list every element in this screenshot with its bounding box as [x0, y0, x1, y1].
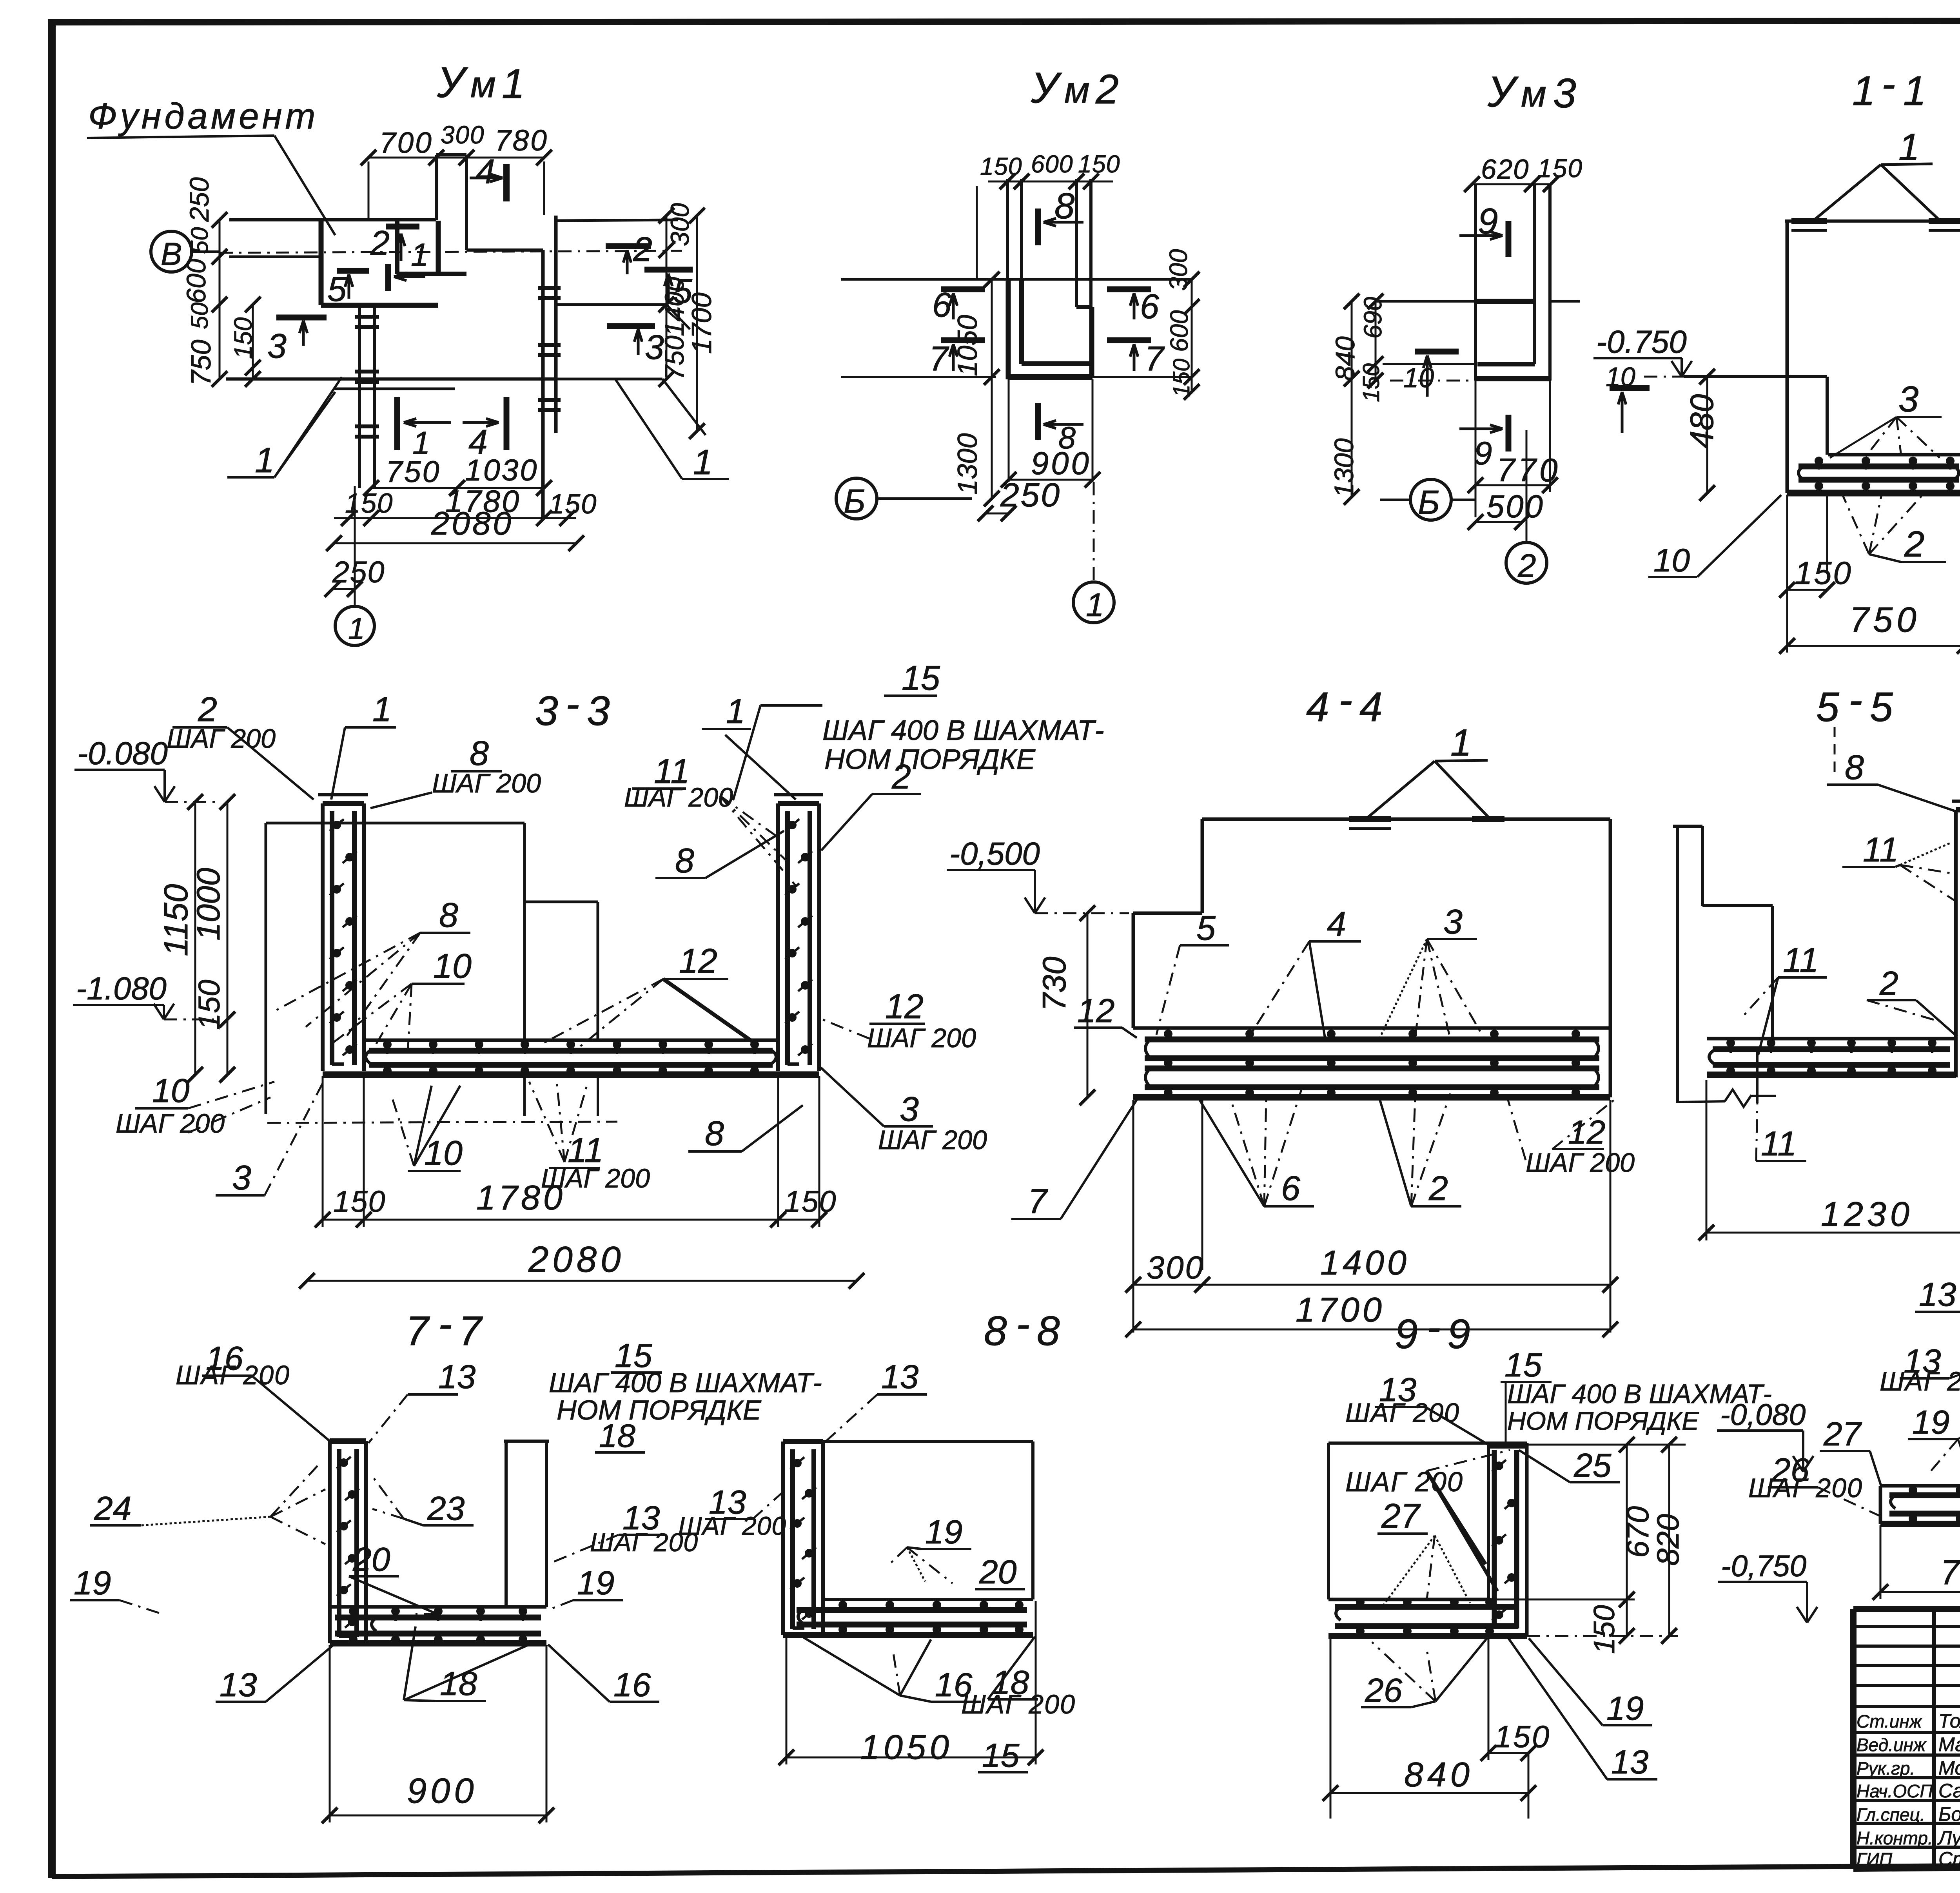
plan Um1 east extension lines [556, 220, 706, 435]
plan Um2 title [1031, 64, 1119, 112]
svg-text:ШАГ 200: ШАГ 200 [1748, 1473, 1863, 1503]
section marks 6 7 right Um2 [1107, 287, 1165, 378]
svg-text:7: 7 [1145, 339, 1165, 378]
label 8 center [274, 896, 470, 1039]
plan Um1 title [437, 58, 525, 107]
svg-text:1: 1 [502, 61, 525, 107]
section 8-8 inner outline [823, 1442, 1033, 1599]
svg-text:19: 19 [74, 1564, 111, 1602]
svg-text:ШАГ 200: ШАГ 200 [432, 769, 541, 798]
svg-text:ШАГ 400 В ШАХМАТ-: ШАГ 400 В ШАХМАТ- [549, 1367, 822, 1398]
svg-text:250: 250 [185, 177, 214, 222]
dimension 150 1780 150 [334, 484, 597, 526]
level mark -0.750 9-9 [1718, 1549, 1817, 1623]
svg-text:8: 8 [675, 841, 694, 880]
svg-text:2: 2 [1095, 66, 1119, 112]
label 12 shag 200 far right [821, 987, 976, 1053]
label 2 top right corner [821, 757, 921, 850]
svg-text:27: 27 [1381, 1496, 1421, 1535]
svg-text:3: 3 [587, 688, 610, 734]
section marks 9 Um3 [1459, 201, 1508, 471]
svg-text:670: 670 [1620, 1506, 1655, 1558]
plan Um3 band lines [1376, 301, 1580, 381]
svg-text:ШАГ 200: ШАГ 200 [1345, 1398, 1460, 1428]
svg-text:26: 26 [1365, 1672, 1403, 1709]
label 2 bottom 4-4 [1380, 1093, 1461, 1208]
svg-text:8: 8 [705, 1114, 724, 1153]
dimensions left side Um1 [181, 177, 261, 387]
label 13 shag 200 left 8-8 [678, 1483, 786, 1540]
label 8 bottom right [688, 1105, 803, 1153]
label 20 8-8 [975, 1553, 1025, 1591]
leader 1 top triangle [1814, 125, 1940, 220]
svg-text:1050: 1050 [952, 315, 983, 376]
svg-text:9: 9 [1447, 1311, 1470, 1357]
svg-text:2: 2 [1428, 1169, 1448, 1208]
svg-text:11: 11 [1761, 1124, 1797, 1163]
svg-text:13: 13 [220, 1666, 257, 1704]
svg-text:1700: 1700 [1296, 1290, 1385, 1329]
label 19 right 7-7 [548, 1564, 623, 1610]
label 23 center 7-7 [370, 1474, 474, 1527]
dimension 1230 5-5 [1699, 1080, 1960, 1240]
svg-text:13: 13 [438, 1358, 475, 1396]
label 2 shag 200 top left [167, 690, 314, 800]
svg-text:750: 750 [185, 340, 216, 386]
svg-text:12: 12 [679, 941, 717, 980]
level mark -1.080 left [73, 971, 220, 1019]
svg-text:11: 11 [1783, 941, 1818, 979]
label 11 shag 200 top mid [624, 752, 796, 886]
svg-text:13: 13 [1611, 1743, 1648, 1781]
section 8-8 slab rebar [783, 1601, 1033, 1635]
svg-text:15: 15 [1504, 1346, 1542, 1384]
svg-text:150: 150 [1494, 1719, 1551, 1754]
svg-text:1230: 1230 [1821, 1195, 1913, 1233]
svg-text:3: 3 [535, 688, 558, 734]
dimension 730 4-4 [1036, 905, 1095, 1105]
label 19 bottom right 9-9 [1529, 1638, 1652, 1727]
section mark 10 Um3 [1403, 352, 1459, 397]
svg-text:24: 24 [94, 1490, 131, 1527]
svg-text:м: м [1521, 73, 1546, 115]
label 8 shag 200 top [370, 734, 541, 808]
section marks east 2 5 3 [606, 230, 693, 366]
svg-text:ШАГ 200: ШАГ 200 [116, 1109, 225, 1139]
axis circle B Um3 [1380, 479, 1475, 521]
label 11 shag 200 bottom [529, 1080, 650, 1193]
svg-text:780: 780 [495, 124, 548, 157]
svg-text:730: 730 [1036, 957, 1073, 1011]
dimension 150 bottom 9-9 [1481, 1637, 1551, 1761]
svg-text:1400: 1400 [1320, 1243, 1410, 1282]
svg-text:10: 10 [1606, 362, 1635, 392]
svg-text:600: 600 [1031, 150, 1073, 178]
dimension 1700 bottom 4-4 [1125, 1290, 1618, 1337]
svg-text:НОМ ПОРЯДКЕ: НОМ ПОРЯДКЕ [557, 1394, 762, 1425]
section 9-9 outer outline [1328, 1443, 1527, 1636]
svg-text:-: - [1339, 677, 1352, 723]
svg-text:12: 12 [885, 987, 924, 1026]
svg-text:5: 5 [1196, 908, 1216, 947]
svg-text:1: 1 [411, 237, 428, 273]
svg-text:50: 50 [186, 302, 213, 329]
svg-text:1: 1 [1852, 68, 1875, 114]
svg-text:6: 6 [1281, 1169, 1300, 1208]
svg-text:150: 150 [192, 979, 226, 1030]
section mark 3 west [267, 317, 327, 365]
label 11 bottom 5-5 [1756, 1048, 1806, 1163]
label 20 center 7-7 [349, 1541, 437, 1614]
svg-text:-: - [1016, 1301, 1030, 1347]
svg-text:Б: Б [1418, 484, 1440, 521]
axis circle 2 Um3 [1506, 430, 1547, 584]
label 13 shag 200 top 9-9 [1345, 1371, 1490, 1445]
svg-text:1300: 1300 [952, 433, 983, 495]
svg-text:8: 8 [1845, 748, 1864, 787]
label 11 mid left 5-5 [1740, 941, 1827, 1055]
svg-text:1: 1 [1903, 68, 1926, 114]
svg-text:7: 7 [1028, 1182, 1048, 1220]
svg-text:16: 16 [613, 1666, 651, 1704]
plan Um3 walls [1475, 184, 1550, 381]
svg-text:ШАГ 200: ШАГ 200 [1880, 1367, 1960, 1396]
label 4 4-4 [1250, 905, 1361, 1038]
level mark -0.500 4-4 [947, 836, 1129, 913]
label 5 4-4 [1156, 908, 1229, 1035]
label 19 10-10 [1908, 1403, 1960, 1481]
svg-text:23: 23 [427, 1490, 465, 1527]
dimension 480 [1683, 369, 1720, 501]
svg-text:ШАГ 200: ШАГ 200 [867, 1023, 976, 1053]
svg-text:150: 150 [980, 153, 1022, 180]
section 1-1 title [1852, 61, 1926, 114]
svg-text:1: 1 [726, 692, 745, 731]
svg-text:1050: 1050 [860, 1728, 953, 1766]
svg-text:-0.750: -0.750 [1596, 324, 1687, 360]
section mark 5 in pad [327, 270, 369, 308]
svg-text:1: 1 [1898, 125, 1920, 168]
svg-text:1150: 1150 [157, 884, 195, 957]
section 5-5 title [1816, 677, 1893, 778]
svg-text:Вед.инж: Вед.инж [1857, 1735, 1927, 1755]
svg-text:ШАГ 200: ШАГ 200 [624, 783, 733, 812]
svg-text:700: 700 [379, 126, 433, 159]
label 13 shag 200 left 10-10 [1880, 1342, 1960, 1396]
svg-text:1: 1 [372, 690, 392, 729]
svg-text:2: 2 [633, 230, 652, 268]
svg-text:2: 2 [370, 223, 390, 262]
label 10 bottom center [392, 1086, 463, 1172]
svg-text:15: 15 [982, 1737, 1020, 1774]
section marks 8 Um2 [1038, 185, 1083, 455]
dimension 750 1030 [363, 453, 552, 496]
note 15 shag 400 top right [733, 658, 1104, 800]
dimension chain 700 300 780 top [361, 121, 552, 220]
label 18 bottom 7-7 [404, 1626, 529, 1703]
label 26 bottom 9-9 [1361, 1638, 1487, 1709]
svg-text:4: 4 [1359, 684, 1383, 730]
section 4-4 outline [1133, 819, 1610, 1097]
svg-text:8: 8 [439, 896, 458, 934]
svg-text:13: 13 [881, 1358, 918, 1396]
svg-text:150: 150 [1795, 555, 1853, 591]
svg-text:1: 1 [348, 612, 365, 646]
svg-text:9: 9 [1474, 435, 1492, 471]
svg-text:480: 480 [1683, 394, 1720, 449]
svg-text:Ст.инж: Ст.инж [1857, 1711, 1923, 1732]
section 7-7 slab rebar [330, 1607, 546, 1644]
label 13 top 7-7 [368, 1358, 475, 1443]
label 1 top right wall [702, 692, 796, 800]
label 7 bottom 4-4 [1011, 1100, 1137, 1220]
svg-text:ШАГ 200: ШАГ 200 [878, 1125, 987, 1155]
svg-text:5: 5 [1816, 684, 1839, 730]
section 3-3 slab rebar [323, 1040, 819, 1075]
dimension 2080 bottom 3-3 [299, 1239, 864, 1289]
svg-text:19: 19 [577, 1564, 614, 1602]
label 19 left 7-7 [70, 1564, 165, 1615]
svg-text:3: 3 [1898, 379, 1918, 419]
dimension 2080 [326, 505, 584, 551]
svg-text:10: 10 [152, 1072, 189, 1110]
svg-text:620: 620 [1481, 154, 1529, 185]
dimensions right side Um2 [1164, 249, 1200, 400]
dimension 300 1400 bottom 4-4 [1125, 1100, 1618, 1333]
label 13 bottom right 9-9 [1508, 1638, 1657, 1781]
dimension 670 820 9-9 [1488, 1437, 1686, 1644]
svg-text:18: 18 [599, 1417, 635, 1454]
svg-text:1: 1 [255, 441, 274, 480]
section 3-3 left wall rebar [318, 795, 368, 1071]
dimension 150 1780 150 bottom 3-3 [315, 1076, 837, 1228]
label 12 center right with diagonal [541, 941, 757, 1046]
svg-text:770: 770 [1940, 1553, 1960, 1592]
svg-text:5: 5 [327, 270, 347, 308]
svg-text:500: 500 [1486, 489, 1544, 524]
section 3-3 right wall rebar [774, 795, 823, 1071]
svg-text:750: 750 [660, 335, 690, 380]
svg-text:4: 4 [1327, 905, 1346, 943]
label shag 200 inner 9-9 [1345, 1450, 1510, 1591]
svg-text:Н.контр.: Н.контр. [1857, 1828, 1933, 1848]
svg-text:25: 25 [1573, 1447, 1612, 1484]
svg-text:2: 2 [1879, 965, 1898, 1002]
svg-text:13: 13 [1919, 1276, 1956, 1313]
svg-text:Макарова: Макарова [1938, 1733, 1960, 1755]
leader 1 top 4-4 [1363, 721, 1490, 821]
svg-text:150: 150 [784, 1185, 837, 1218]
label 6 bottom 4-4 [1200, 1090, 1314, 1208]
axis circle 1 Um2 [1073, 482, 1114, 623]
label 18 shag 200 bottom right 8-8 [961, 1637, 1076, 1719]
dimension 770 Um3 [1468, 381, 1561, 517]
svg-text:12: 12 [1077, 992, 1114, 1030]
section mark 2 in pad [370, 223, 419, 262]
svg-text:10: 10 [1403, 362, 1434, 393]
label 10 bottom left [1648, 495, 1781, 578]
svg-text:3: 3 [900, 1090, 919, 1128]
dimension 620 150 top Um3 [1464, 154, 1583, 192]
label 2 center 5-5 [1867, 965, 1957, 1037]
dimensions left side Um3 [1329, 294, 1387, 505]
section 4-4 slab double rebar [1133, 1028, 1610, 1097]
svg-text:2: 2 [1517, 547, 1536, 584]
svg-text:6: 6 [932, 285, 951, 324]
section 5-5 wall rebar [1952, 801, 1960, 1077]
section 9-9 title [1395, 1304, 1470, 1357]
svg-text:1030: 1030 [465, 453, 538, 487]
svg-text:150: 150 [549, 488, 597, 519]
label 27 inner 9-9 [1377, 1496, 1470, 1607]
svg-text:ШАГ 200: ШАГ 200 [167, 724, 276, 754]
svg-text:Б: Б [844, 482, 866, 520]
svg-text:У: У [1031, 64, 1062, 112]
section mark 1 in pad [388, 237, 428, 291]
dimension 500 Um3 [1468, 489, 1544, 530]
svg-text:м: м [470, 64, 496, 105]
svg-text:150: 150 [1537, 154, 1583, 183]
level mark -0.750 [1593, 324, 1692, 377]
plan Um2 band lines [841, 279, 1191, 377]
plan Um2 walls [1007, 179, 1093, 379]
svg-text:-0,080: -0,080 [1720, 1398, 1806, 1432]
title block outer box [1853, 1609, 1960, 1869]
label 11 top 5-5 [1842, 830, 1956, 901]
section marks 6 7 left Um2 [929, 285, 985, 378]
leader 1 bottom-right [615, 379, 729, 482]
plan Um3 title [1487, 68, 1576, 116]
note 15 shag 400 8-8 [549, 1337, 822, 1454]
svg-text:В: В [161, 236, 182, 272]
title block signature labels [1857, 1710, 1960, 1870]
svg-text:19: 19 [1606, 1690, 1644, 1727]
svg-text:820: 820 [1650, 1514, 1685, 1566]
svg-text:3: 3 [1443, 902, 1463, 941]
section 5-5 slab rebar [1707, 1039, 1956, 1075]
section 3-3 title [535, 681, 610, 734]
dimension 900 7-7 [322, 1645, 554, 1823]
svg-text:6: 6 [1140, 287, 1159, 326]
svg-text:-0.080: -0.080 [77, 736, 168, 771]
svg-text:НОМ ПОРЯДКЕ: НОМ ПОРЯДКЕ [824, 743, 1036, 775]
svg-text:Бояченко: Бояченко [1938, 1803, 1960, 1825]
svg-text:Сташевск: Сташевск [1938, 1848, 1960, 1870]
svg-text:Гл.спец.: Гл.спец. [1857, 1804, 1925, 1825]
axis line B with circle [151, 231, 682, 272]
label 16 bottom right 7-7 [548, 1645, 659, 1704]
note 15 shag 400 9-9 [1501, 1346, 1772, 1442]
svg-text:20: 20 [979, 1553, 1016, 1591]
svg-text:8: 8 [984, 1308, 1007, 1354]
dimension 1150 1000 150 left [157, 794, 235, 1082]
section marks 1 and 4 bottom [397, 397, 506, 461]
label 13 top left 10-10 [1915, 1276, 1960, 1331]
label 12 left 4-4 [1074, 992, 1137, 1038]
svg-text:7: 7 [929, 339, 949, 378]
svg-text:7: 7 [406, 1308, 430, 1354]
section 1-1 step [1644, 377, 1827, 573]
svg-text:1: 1 [1086, 586, 1104, 623]
svg-text:ШАГ 200: ШАГ 200 [1526, 1148, 1635, 1178]
dimension 840 9-9 [1323, 1637, 1536, 1819]
label 27 left 10-10 [1820, 1415, 1882, 1487]
svg-text:1300: 1300 [1329, 438, 1359, 498]
label 8 top 5-5 [1827, 748, 1956, 811]
section 5-5 left profile [1673, 826, 1776, 1107]
dimensions left side Um2 [952, 272, 1000, 506]
svg-text:27: 27 [1823, 1415, 1862, 1453]
svg-text:-: - [566, 681, 579, 727]
svg-text:Моргунов: Моргунов [1938, 1757, 1960, 1779]
svg-text:ГИП: ГИП [1857, 1849, 1893, 1869]
section 9-9 slab rebar [1328, 1598, 1527, 1636]
svg-text:-: - [438, 1301, 452, 1347]
svg-text:ШАГ 200: ШАГ 200 [176, 1360, 290, 1390]
label 13 shag 200 right 7-7 [549, 1499, 698, 1564]
dimension 150 section 1-1 [1779, 555, 1853, 598]
svg-text:1780: 1780 [476, 1178, 566, 1217]
svg-text:19: 19 [925, 1513, 962, 1551]
label 24 left 7-7 [90, 1466, 325, 1544]
section 4-4 title [1306, 677, 1383, 730]
dimension 1050 8-8 [779, 1601, 1044, 1766]
svg-text:300: 300 [665, 203, 694, 246]
svg-text:м: м [1064, 69, 1090, 111]
label 26 shag 200 bottom left 10-10 [1748, 1451, 1882, 1517]
label 10 center [333, 946, 472, 1054]
plan Um1 outline [226, 155, 561, 517]
svg-text:300: 300 [441, 121, 485, 149]
svg-text:600: 600 [1165, 310, 1193, 352]
section 1-1 slab rebar [1787, 455, 1960, 493]
svg-text:-0,500: -0,500 [949, 836, 1040, 872]
svg-text:840: 840 [1404, 1755, 1474, 1794]
svg-text:-: - [1882, 61, 1895, 107]
section 10-10 slab rebar [1880, 1486, 1960, 1524]
svg-text:300: 300 [1147, 1250, 1205, 1286]
section 1-1 wall outline [1785, 221, 1960, 493]
section 8-8 wall rebar [783, 1442, 823, 1635]
svg-text:9: 9 [1395, 1311, 1418, 1357]
dimension 750 section 1-1 [1779, 495, 1960, 654]
label 12 shag 200 right 4-4 [1507, 1097, 1635, 1178]
label 15 bottom 8-8 [978, 1737, 1028, 1774]
section 8-8 title [984, 1301, 1060, 1354]
svg-text:НОМ ПОРЯДКЕ: НОМ ПОРЯДКЕ [1507, 1406, 1699, 1435]
svg-text:1700: 1700 [686, 292, 717, 354]
svg-text:5: 5 [1870, 684, 1893, 730]
svg-text:2: 2 [1904, 524, 1924, 564]
svg-text:ШАГ 200: ШАГ 200 [961, 1690, 1076, 1719]
label 10 with arrow left [1606, 362, 1650, 433]
title block signature grid [1853, 1609, 1960, 1867]
dimension 150 right 9-9 [1588, 1592, 1635, 1654]
svg-text:2: 2 [198, 690, 217, 729]
svg-text:ШАГ 200: ШАГ 200 [678, 1511, 786, 1540]
dimension 150 600 150 top Um2 [977, 150, 1120, 279]
svg-text:8: 8 [470, 734, 489, 772]
label 3 4-4 [1380, 902, 1486, 1041]
svg-text:-0,750: -0,750 [1721, 1549, 1807, 1583]
svg-text:150: 150 [333, 1185, 386, 1218]
svg-text:750: 750 [386, 455, 441, 489]
svg-text:3: 3 [1553, 70, 1576, 116]
level mark -0.080 left [74, 736, 220, 802]
section 7-7 wall rebar [330, 1441, 366, 1643]
svg-text:10: 10 [1653, 542, 1690, 578]
dimension 250 and axis circle 1 [325, 486, 385, 646]
